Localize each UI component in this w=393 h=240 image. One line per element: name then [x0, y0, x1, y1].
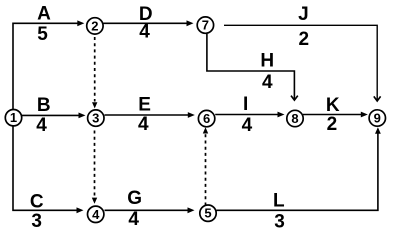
svg-text:J: J — [298, 4, 309, 25]
svg-text:G: G — [127, 188, 142, 209]
svg-text:B: B — [37, 95, 51, 116]
svg-text:C: C — [30, 191, 44, 212]
wire I from node 6 to node 8 — [215, 112, 284, 118]
svg-text:3: 3 — [31, 211, 42, 232]
svg-text:6: 6 — [203, 111, 210, 126]
label K value 2 — [326, 95, 340, 135]
svg-text:7: 7 — [202, 18, 209, 33]
wire D from node 2 to node 7 — [104, 20, 194, 26]
node 9 — [369, 110, 385, 126]
label C value 3 — [30, 191, 44, 232]
svg-text:4: 4 — [139, 22, 150, 43]
svg-text:4: 4 — [128, 209, 139, 230]
dummy arrow node 2 to node 3 dashed — [92, 37, 97, 108]
svg-text:4: 4 — [138, 114, 149, 135]
wire H elbow from node 7 down right down to node 8 — [207, 34, 298, 100]
dummy arrow node 3 to node 4 dashed — [92, 131, 97, 204]
label J value 2 — [298, 4, 309, 50]
svg-text:L: L — [273, 190, 285, 211]
svg-text:3: 3 — [274, 211, 285, 232]
svg-text:3: 3 — [92, 111, 99, 126]
svg-text:9: 9 — [374, 111, 381, 126]
node 3 — [88, 110, 104, 126]
label D value 4 — [139, 4, 153, 43]
wire B from node 1 to node 3 — [21, 113, 86, 119]
node 5 — [200, 205, 216, 221]
svg-text:1: 1 — [10, 110, 17, 125]
label A value 5 — [37, 4, 51, 46]
wire A elbow from node 1 up then right — [13, 20, 84, 110]
svg-text:4: 4 — [36, 115, 47, 136]
wire G from node 4 to node 5 — [105, 207, 195, 213]
svg-text:2: 2 — [299, 29, 310, 50]
label B value 4 — [36, 95, 50, 136]
label L value 3 — [273, 190, 285, 232]
wire J elbow from node 7 right then down to node 9 — [224, 25, 381, 101]
node 7 — [197, 17, 213, 33]
svg-text:I: I — [243, 94, 248, 115]
svg-text:2: 2 — [91, 18, 98, 33]
svg-text:4: 4 — [262, 72, 273, 93]
svg-text:A: A — [37, 4, 51, 25]
node 8 — [287, 110, 303, 126]
node 6 — [198, 110, 214, 126]
label E value 4 — [138, 95, 151, 135]
node 2 — [87, 18, 103, 34]
svg-text:8: 8 — [291, 111, 298, 126]
svg-text:4: 4 — [242, 115, 253, 136]
svg-text:4: 4 — [92, 207, 100, 222]
wire C elbow from node 1 down then right — [13, 126, 84, 213]
svg-text:E: E — [138, 95, 151, 116]
svg-text:2: 2 — [327, 114, 338, 135]
wire E from node 3 to node 6 — [105, 112, 195, 118]
svg-text:H: H — [260, 50, 274, 71]
node 4 — [88, 206, 104, 222]
label G value 4 — [127, 188, 142, 230]
dummy arrow node 5 to node 6 dashed — [203, 127, 208, 205]
svg-text:5: 5 — [204, 206, 211, 221]
label H value 4 — [260, 50, 274, 93]
wire L elbow from node 5 right then up to node 9 — [217, 127, 381, 210]
node 1 — [5, 110, 21, 126]
svg-text:5: 5 — [37, 24, 48, 45]
wire K from node 8 to node 9 — [303, 112, 368, 118]
label I value 4 — [242, 94, 253, 136]
